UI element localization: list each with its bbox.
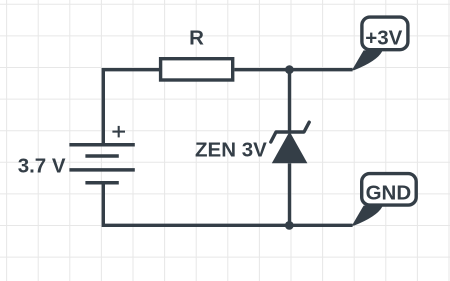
svg-text:R: R (189, 27, 204, 50)
svg-text:ZEN 3V: ZEN 3V (195, 139, 267, 162)
svg-text:3.7 V: 3.7 V (18, 154, 66, 177)
svg-text:GND: GND (366, 182, 412, 205)
svg-text:+3V: +3V (365, 26, 402, 49)
